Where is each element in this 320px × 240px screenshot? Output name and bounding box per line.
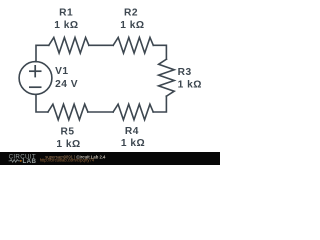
svg-text:24 V: 24 V: [55, 79, 78, 90]
svg-text:R5: R5: [60, 127, 74, 138]
watermark bar: [0, 152, 220, 165]
wire top-right (R2 to corner, down to R3): [153, 45, 166, 59]
svg-text:1 kΩ: 1 kΩ: [121, 138, 145, 149]
voltage source V1 plus sign: [29, 65, 42, 87]
resistor R4: [113, 104, 153, 120]
wire bottom-mid (R4 to R5): [88, 111, 113, 113]
svg-text:http://circuitlab.com/c/pqrty7: http://circuitlab.com/c/pqrty74: [40, 158, 95, 163]
resistor R5: [48, 104, 88, 120]
voltage source V1 minus sign: [29, 86, 42, 88]
svg-text:R3: R3: [178, 67, 192, 78]
svg-text:R1: R1: [59, 7, 73, 18]
svg-text:R4: R4: [125, 126, 139, 137]
svg-text:V1: V1: [55, 66, 68, 77]
svg-text:LAB: LAB: [23, 158, 37, 165]
svg-text:1 kΩ: 1 kΩ: [56, 139, 80, 150]
wire bottom-left (R5 left to corner, up to V1 bottom): [36, 95, 48, 113]
wire top-left (from V1 top up and right to R1): [36, 45, 49, 61]
svg-text:1 kΩ: 1 kΩ: [178, 79, 202, 90]
CircuitLab logo: orange arrow: [20, 160, 22, 162]
svg-text:R2: R2: [124, 7, 138, 18]
svg-text:1 kΩ: 1 kΩ: [120, 20, 144, 31]
resistor R1: [49, 38, 89, 54]
resistor R3: [159, 59, 175, 96]
CircuitLab logo: zigzag: [9, 160, 21, 163]
wire top-mid (R1 to R2): [89, 44, 113, 46]
voltage source V1 circle: [19, 62, 52, 95]
wire right-bottom (R3 to corner, left to R4): [153, 96, 166, 112]
svg-text:1 kΩ: 1 kΩ: [54, 20, 78, 31]
resistor R2: [113, 38, 153, 54]
